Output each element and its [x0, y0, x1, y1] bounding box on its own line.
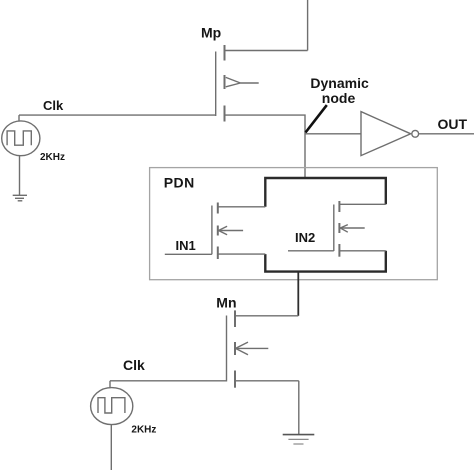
svg-text:node: node [322, 90, 356, 106]
wire Mp drain [225, 50, 308, 52]
svg-text:Dynamic: Dynamic [310, 75, 369, 91]
wire Mp source to dynamic node [225, 115, 306, 178]
transistor Mp [216, 45, 259, 122]
svg-text:Mn: Mn [216, 295, 236, 311]
transistor IN1 [165, 203, 265, 260]
svg-text:OUT: OUT [438, 116, 468, 132]
wire Clk to Mp gate [19, 114, 216, 116]
svg-text:IN2: IN2 [295, 230, 315, 245]
wire Clk to Mn gate [110, 380, 227, 382]
transistor Mn [227, 310, 299, 387]
clock source V2 [91, 381, 133, 470]
wire thick top rail [265, 178, 386, 272]
svg-text:Clk: Clk [43, 98, 64, 113]
wire PDN output to Mn [297, 272, 299, 316]
svg-text:2KHz: 2KHz [40, 152, 65, 163]
ground G2 [283, 435, 315, 444]
transistor IN2 [288, 201, 386, 257]
wire node to inverter [305, 133, 361, 135]
op-amp U1 inverter [361, 112, 419, 156]
wire Mn source to ground [298, 381, 300, 434]
wire VDD vertical [307, 0, 309, 51]
node dynamic-node pointer [306, 105, 327, 132]
svg-text:PDN: PDN [164, 175, 195, 191]
svg-text:Mp: Mp [201, 25, 221, 41]
svg-text:2KHz: 2KHz [131, 425, 156, 436]
ground G1 [13, 195, 27, 201]
PDN box [150, 168, 438, 280]
svg-text:Clk: Clk [123, 357, 145, 373]
svg-text:IN1: IN1 [176, 238, 196, 253]
wire OUT [419, 133, 474, 135]
clock source V1 [2, 115, 40, 195]
